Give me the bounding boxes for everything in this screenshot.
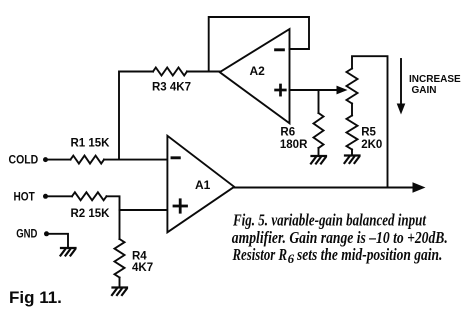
svg-text:180R: 180R (280, 139, 308, 151)
svg-text:R3 4K7: R3 4K7 (152, 82, 191, 94)
svg-text:INCREASE: INCREASE (409, 74, 461, 85)
node GND (16, 228, 49, 240)
wire: A2 non-inverting input to R5 wiper (290, 89, 342, 91)
ground below R4 (112, 288, 127, 296)
wire: A2 output to R3 (187, 71, 220, 73)
increase gain arrow (397, 59, 461, 115)
svg-text:HOT: HOT (14, 191, 35, 203)
resistor R3 (152, 68, 191, 94)
wire: junction down to R4 (119, 210, 121, 239)
resistor R4 (115, 239, 154, 278)
wire: COLD terminal to R1 (46, 159, 71, 161)
wire: junction down to R6 (318, 90, 320, 113)
wire: A1 output line (234, 187, 415, 189)
wire: GND terminal to ground symbol (47, 234, 69, 247)
wire: A2 feedback loop output to inverting input (209, 17, 309, 72)
svg-text:4K7: 4K7 (132, 262, 153, 274)
svg-text:A2: A2 (250, 64, 266, 78)
wire: HOT terminal to R2 (46, 195, 73, 197)
resistor R2 (71, 192, 111, 220)
svg-text:Fig 11.: Fig 11. (9, 288, 62, 307)
wire: R3 left to junction on COLD line (119, 72, 153, 160)
wire: R2 to corner, down, to A1 non-inverting input (107, 196, 168, 210)
resistor R6 (280, 113, 324, 151)
svg-text:COLD: COLD (9, 155, 39, 167)
wire: R5 top to output line (352, 56, 388, 187)
ground below R6 (311, 156, 326, 164)
wire: R4 to ground (119, 278, 121, 287)
op-amp A2 (220, 29, 290, 123)
ground below R5 (345, 156, 360, 164)
svg-text:R4: R4 (132, 251, 147, 263)
svg-text:GAIN: GAIN (412, 85, 437, 96)
wire: R6 to ground (318, 148, 320, 155)
svg-text:2K0: 2K0 (361, 139, 382, 151)
svg-text:GND: GND (16, 228, 37, 240)
svg-text:R5: R5 (361, 126, 376, 138)
op-amp A1 (167, 136, 234, 233)
resistor R1 (71, 138, 111, 164)
node COLD (9, 155, 49, 167)
svg-text:6: 6 (288, 251, 295, 266)
wire: R1 to A1 inverting input (104, 159, 167, 161)
output arrowhead (413, 182, 426, 192)
svg-text:R1 15K: R1 15K (71, 138, 111, 150)
svg-text:R2 15K: R2 15K (71, 208, 111, 220)
ground at GND input (61, 248, 76, 256)
svg-text:Resistor R: Resistor R (232, 245, 287, 264)
wire: R5 bottom to ground (351, 150, 353, 155)
node HOT (14, 191, 49, 203)
caption figure 5 (232, 211, 448, 266)
wiper arrowhead (337, 86, 348, 95)
svg-text:sets the mid-position gain.: sets the mid-position gain. (296, 245, 442, 264)
svg-text:A1: A1 (195, 178, 211, 192)
potentiometer R5 (347, 69, 383, 151)
svg-text:R6: R6 (280, 126, 295, 138)
